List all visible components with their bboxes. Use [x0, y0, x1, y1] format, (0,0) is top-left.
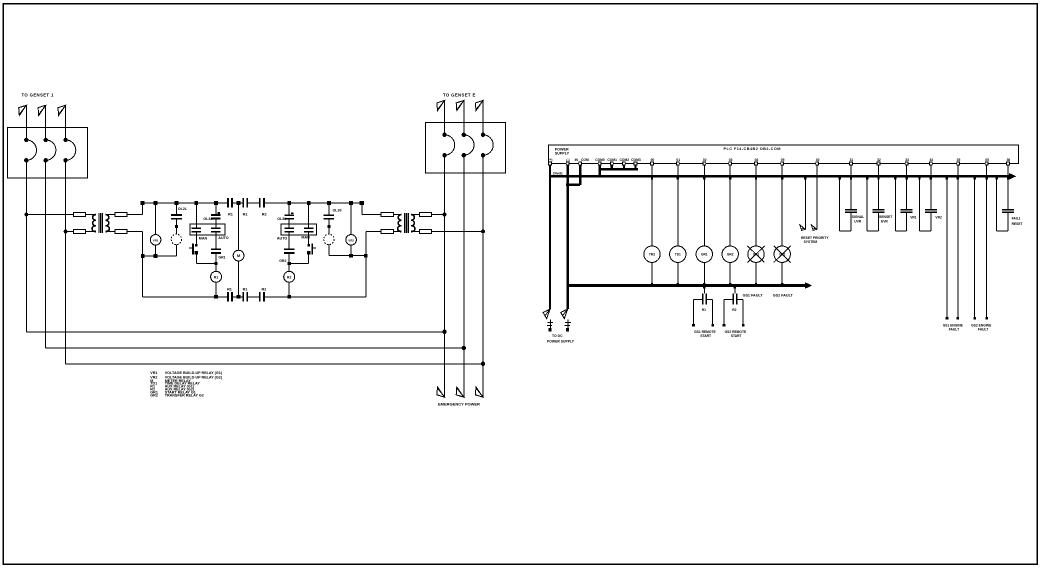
- svg-text:R2: R2: [732, 308, 736, 312]
- svg-text:TRANSFER RELAY G2: TRANSFER RELAY G2: [165, 393, 204, 397]
- terminal pin 00: [651, 162, 654, 165]
- wire: [703, 262, 705, 285]
- junction: [442, 330, 446, 334]
- relay coil R1: [211, 271, 222, 282]
- wire: [729, 262, 731, 285]
- terminal pin COM1: [610, 162, 613, 165]
- contact MAN (in S1): [191, 227, 201, 229]
- wire: [308, 254, 310, 263]
- wire: [106, 214, 115, 216]
- svg-text:R1: R1: [243, 213, 248, 217]
- wire terminal 35 to engine fault contact: [957, 165, 959, 317]
- junction: [237, 201, 241, 205]
- svg-text:R1: R1: [227, 288, 232, 292]
- disconnect switch (to DC power supply): [561, 309, 568, 318]
- wire: [65, 105, 67, 140]
- wire: [175, 203, 177, 214]
- junction (bus nub): [703, 177, 705, 180]
- junction (bus nub): [677, 177, 679, 180]
- fuse F7: [420, 212, 432, 216]
- terminal pin COM0: [598, 162, 601, 165]
- relay VR1 (voltage build-up relay G1): [150, 235, 161, 246]
- wire: [878, 165, 880, 176]
- wire DC- (thick): [566, 165, 568, 309]
- breaker pole 1 (CB2): [442, 133, 446, 137]
- wire: [755, 176, 757, 246]
- capacitor/contact OL32 (right): [284, 214, 294, 216]
- junction (lower bus nub): [677, 283, 679, 286]
- svg-text:PLC F14-CB4B2 OB2-COM: PLC F14-CB4B2 OB2-COM: [724, 147, 781, 151]
- input contact loop VR1: [894, 176, 896, 231]
- svg-text:VR1: VR1: [150, 371, 157, 375]
- pilot light GF2 (crossed): [774, 246, 790, 262]
- junction (bus nub): [838, 177, 840, 180]
- junction (bus nub): [866, 177, 868, 180]
- disconnect switch (to DC power supply): [543, 309, 550, 318]
- flag reset priority 2: [811, 225, 816, 231]
- terminal pin 03: [729, 162, 732, 165]
- wire phase C genset E: [482, 155, 484, 397]
- svg-text:30: 30: [816, 158, 820, 162]
- junction: [175, 201, 179, 205]
- wire: [703, 165, 705, 176]
- junction: [307, 201, 311, 205]
- wire: [195, 254, 197, 263]
- relay VR2 (voltage build-up relay G2): [346, 235, 357, 246]
- svg-text:GR2: GR2: [150, 393, 158, 397]
- terminal pin 31: [850, 162, 853, 165]
- wire: [288, 282, 290, 297]
- input contact loop VR2: [919, 176, 921, 231]
- svg-text:START: START: [700, 334, 711, 338]
- svg-text:GR2: GR2: [279, 259, 286, 263]
- circuit breaker CB1 (genset 1) enclosure: [7, 127, 87, 178]
- svg-text:COM2: COM2: [620, 158, 630, 162]
- flag source connector L1 (to genset 1): [19, 105, 27, 115]
- wire: [215, 219, 217, 227]
- wire: [703, 286, 705, 294]
- terminal pin COM: [579, 162, 582, 165]
- input contact loop FAIL1: [996, 176, 998, 231]
- junction (bus nub): [973, 177, 975, 180]
- junction (bus nub): [946, 177, 948, 180]
- terminal pin 34: [930, 162, 933, 165]
- pilot light GF1 (crossed): [748, 246, 764, 262]
- wire: [946, 176, 948, 317]
- wire phase C genset1: [65, 160, 67, 363]
- svg-text:OL39: OL39: [333, 208, 342, 212]
- svg-text:R1: R1: [228, 213, 233, 217]
- terminal pin COM3: [634, 162, 637, 165]
- svg-text:35: 35: [957, 158, 961, 162]
- wire: [308, 233, 310, 244]
- wire: [175, 220, 177, 235]
- junction: [154, 254, 158, 258]
- input contact loop GENSET: [866, 176, 868, 231]
- junction: [194, 201, 198, 205]
- svg-text:02: 02: [703, 158, 707, 162]
- svg-text:GR1: GR1: [701, 253, 708, 257]
- junction (bus nub): [877, 177, 879, 180]
- wire: [215, 233, 217, 249]
- junction: [288, 262, 291, 265]
- wire: [215, 203, 217, 214]
- breaker pole 2 (CB2): [462, 133, 466, 137]
- wire DC+ (thick): [549, 165, 551, 309]
- wire: [651, 176, 653, 246]
- wire: [196, 262, 216, 264]
- terminal pin 05: [985, 162, 988, 165]
- svg-text:R1: R1: [214, 275, 218, 279]
- contact R1 (remote start contact): [702, 293, 704, 304]
- wire: [482, 101, 484, 135]
- svg-text:OL32: OL32: [277, 217, 286, 221]
- contact VR2 (capacitor bars): [925, 209, 937, 211]
- PLC U1 enclosure: [548, 145, 1018, 164]
- svg-text:COM1: COM1: [607, 158, 617, 162]
- wire: [651, 165, 653, 176]
- svg-text:COM3: COM3: [631, 158, 641, 162]
- wire: [215, 282, 217, 297]
- svg-text:03: 03: [729, 158, 733, 162]
- wire COM2 drop (thick): [623, 165, 625, 170]
- contact R2 (top rail): [259, 198, 261, 207]
- wire phase B genset E: [463, 155, 465, 397]
- svg-text:31: 31: [850, 158, 854, 162]
- wire: [677, 176, 679, 246]
- junction (bus nub): [918, 177, 920, 180]
- junction (bus nub): [703, 286, 705, 289]
- fuse F6: [381, 230, 393, 234]
- junction (lower bus nub): [781, 283, 783, 286]
- wire COM1 drop (thick): [611, 165, 613, 170]
- flag source connector L3 (to genset 1): [58, 105, 66, 115]
- junction (bus nub): [894, 177, 896, 180]
- wire: [155, 203, 157, 235]
- svg-text:COM: COM: [581, 158, 589, 162]
- flag source connector L2 (to genset 1): [38, 105, 46, 115]
- transformer T1 (PT genset 1): [92, 215, 96, 232]
- relay coil TD1: [670, 246, 686, 262]
- wire: [350, 203, 352, 235]
- svg-text:36: 36: [1007, 158, 1011, 162]
- wire: [694, 298, 702, 300]
- contact R1 (bottom rail, second): [242, 292, 244, 301]
- flag source connector E2 (to genset E): [456, 101, 464, 111]
- junction (bus nub): [906, 177, 908, 180]
- relay coil GR2: [722, 246, 738, 262]
- capacitor/contact OL32 (left): [211, 214, 221, 216]
- coil GR2 contact bars: [284, 248, 294, 250]
- svg-text:SUPPLY: SUPPLY: [555, 152, 570, 156]
- wire: [238, 261, 240, 297]
- svg-text:POWER SUPPLY: POWER SUPPLY: [547, 339, 575, 343]
- wire: [361, 203, 363, 215]
- svg-text:33: 33: [905, 158, 909, 162]
- wire: [723, 299, 725, 324]
- wire: [755, 165, 757, 176]
- wire COM jumper to DC- (thick): [579, 165, 581, 185]
- terminal pin 32: [877, 162, 880, 165]
- svg-text:04: 04: [755, 158, 759, 162]
- svg-text:EVR: EVR: [881, 220, 888, 224]
- contact R1 (bottom rail, first): [227, 292, 229, 301]
- wire: [289, 262, 309, 264]
- input contact loop SIGNAL: [839, 176, 841, 231]
- terminal pin 04: [755, 162, 758, 165]
- junction (bus nub): [957, 177, 959, 180]
- wire: [155, 245, 157, 256]
- breaker pole 3 (CB1): [63, 138, 67, 142]
- flag source connector E3 (to genset E): [475, 101, 483, 111]
- wire: [444, 101, 446, 135]
- junction: [462, 346, 466, 350]
- wire: [393, 231, 401, 233]
- contact AUTO (in S1): [211, 227, 221, 229]
- svg-text:FAULT: FAULT: [978, 328, 988, 332]
- terminal: [742, 324, 745, 327]
- junction: [175, 225, 178, 228]
- contact R2 (remote start contact): [732, 293, 734, 304]
- svg-text:00: 00: [651, 158, 655, 162]
- wire: [362, 214, 381, 216]
- wire: [1007, 165, 1009, 176]
- terminal (engine fault): [973, 317, 976, 320]
- junction: [566, 183, 569, 186]
- wire COM3 drop (thick): [634, 165, 636, 170]
- wire terminal 05 to engine fault contact: [986, 165, 988, 317]
- wire: [288, 203, 290, 215]
- wire: [25, 105, 27, 140]
- svg-text:R2: R2: [262, 213, 267, 217]
- capacitor/contact OL2L: [171, 214, 182, 216]
- svg-text:34: 34: [929, 158, 933, 162]
- junction (bus nub): [781, 177, 783, 180]
- wire: [215, 254, 217, 271]
- wire: [26, 214, 73, 216]
- svg-text:SYSTEM: SYSTEM: [804, 240, 818, 244]
- svg-text:START: START: [731, 334, 742, 338]
- junction (bus nub): [755, 177, 757, 180]
- junction: [214, 295, 218, 299]
- svg-text:01: 01: [676, 158, 680, 162]
- svg-text:OL2L: OL2L: [178, 207, 188, 211]
- wire phase A genset E (down to emergency power flag): [444, 155, 446, 397]
- wire: [850, 165, 852, 176]
- svg-text:AUTO: AUTO: [218, 236, 229, 240]
- junction: [154, 201, 158, 205]
- wire: [742, 299, 744, 324]
- contact GENSET (capacitor bars): [873, 209, 885, 211]
- svg-text:05: 05: [781, 158, 785, 162]
- svg-text:UVR: UVR: [854, 220, 862, 224]
- wire: [328, 203, 330, 215]
- terminal: [692, 324, 695, 327]
- junction: [349, 254, 353, 258]
- junction (lower bus nub): [755, 283, 757, 286]
- junction (bus nub): [986, 177, 988, 180]
- wire: [712, 299, 714, 324]
- wire terminal 30 to reset flag: [816, 165, 818, 229]
- svg-text:TO DC: TO DC: [552, 334, 563, 338]
- junction (PT tap phase C): [64, 230, 68, 234]
- fuse F4: [115, 230, 127, 234]
- svg-text:FAULT: FAULT: [949, 328, 959, 332]
- wire lower common bus (thick, arrow right): [567, 284, 806, 287]
- wire: [804, 176, 806, 229]
- terminal (engine fault): [985, 317, 988, 320]
- junction: [349, 201, 353, 205]
- wire: [366, 231, 381, 233]
- wire: [175, 245, 177, 256]
- flag reset priority 1: [800, 225, 805, 231]
- svg-text:OL32: OL32: [203, 217, 212, 221]
- wire: [677, 165, 679, 176]
- junction (bus nub): [734, 286, 736, 289]
- fuse F2: [73, 230, 85, 234]
- contact MAN (in S2): [304, 227, 314, 229]
- breaker pole 2 (CB1): [44, 138, 48, 142]
- wire tie phase C: [66, 363, 483, 365]
- wire: [432, 230, 483, 232]
- wire tie phase B: [46, 347, 464, 349]
- wire: [308, 203, 310, 228]
- junction (bus nub): [804, 177, 806, 180]
- transformer T2 (PT genset E): [398, 215, 402, 232]
- wire right control rail: [365, 232, 367, 297]
- terminal pin 35: [957, 162, 960, 165]
- wire: [411, 231, 419, 233]
- junction: [215, 262, 218, 265]
- terminal pin 33: [905, 162, 908, 165]
- junction: [481, 230, 485, 234]
- wire: [86, 231, 96, 233]
- terminal (engine fault): [956, 317, 959, 320]
- wire COM0 drop (thick): [598, 165, 600, 178]
- circuit breaker CB2 (genset E) enclosure: [425, 122, 505, 172]
- contact VR1 (capacitor bars): [901, 209, 913, 211]
- wire: [729, 165, 731, 176]
- svg-text:VOLTAGE BUILD-UP RELAY (G1): VOLTAGE BUILD-UP RELAY (G1): [165, 371, 223, 375]
- wire: [781, 165, 783, 176]
- transfer switch S2 (AUTO/MAN) enclosure right: [281, 224, 316, 235]
- wire: [463, 101, 465, 135]
- junction (PT tap phase A): [24, 213, 28, 217]
- wire phase B genset1: [45, 160, 47, 348]
- junction: [237, 295, 241, 299]
- wire: [411, 214, 419, 216]
- wire left control rail: [142, 232, 144, 297]
- wire: [288, 233, 290, 249]
- junction: [214, 201, 218, 205]
- wire: [195, 233, 197, 244]
- wire: [288, 219, 290, 227]
- wire: [142, 203, 144, 215]
- lamp (dashed circle) G1: [171, 234, 181, 244]
- wire: [328, 245, 330, 256]
- wire: [930, 165, 932, 176]
- terminal pin (+): [549, 162, 552, 165]
- svg-text:GR1: GR1: [218, 256, 225, 260]
- svg-text:(-): (-): [566, 158, 569, 162]
- svg-text:R2: R2: [287, 275, 291, 279]
- svg-text:(+): (+): [548, 158, 552, 162]
- svg-text:VR2: VR2: [348, 238, 354, 242]
- svg-text:RESET: RESET: [1012, 222, 1023, 226]
- terminal: [566, 328, 569, 331]
- terminal pin 01: [676, 162, 679, 165]
- wire: [127, 214, 143, 216]
- junction: [328, 225, 331, 228]
- contact R1 (top rail, first): [227, 198, 229, 207]
- svg-text:24vdc: 24vdc: [553, 171, 563, 175]
- junction (bus nub): [729, 177, 731, 180]
- junction: [287, 201, 291, 205]
- junction: [364, 254, 368, 258]
- junction: [141, 254, 145, 258]
- svg-text:AUTO: AUTO: [277, 236, 288, 240]
- wire: [45, 105, 47, 140]
- svg-text:R1: R1: [702, 308, 706, 312]
- junction (bus nub): [995, 177, 997, 180]
- wire: [350, 245, 352, 256]
- wire: [432, 214, 445, 216]
- wire: [707, 298, 713, 300]
- wire: [328, 219, 330, 234]
- junction (lower bus nub): [651, 283, 653, 286]
- contact GR2 aux (NO contact): [307, 244, 310, 247]
- wire control bottom rail: [143, 296, 228, 298]
- junction: [287, 295, 291, 299]
- terminal: [711, 324, 714, 327]
- meter relay M: [233, 250, 244, 261]
- svg-text:32: 32: [877, 158, 881, 162]
- contact R1 (top rail, second): [242, 198, 244, 207]
- wire tie phase A: [26, 331, 444, 333]
- wire: [677, 262, 679, 285]
- contact SIGNAL (capacitor bars): [845, 209, 857, 211]
- fuse F8: [420, 230, 432, 234]
- flag load connector (emergency power 2): [456, 387, 464, 397]
- fuse F3: [115, 212, 127, 216]
- relay coil GR1: [696, 246, 712, 262]
- breaker pole 3 (CB2): [481, 133, 485, 137]
- contact FAIL1 (capacitor bars): [1002, 209, 1014, 211]
- wire: [127, 231, 143, 233]
- wire control top rail: [143, 202, 228, 204]
- svg-text:GS2 FAULT: GS2 FAULT: [773, 293, 794, 297]
- wire phase A genset1: [25, 160, 27, 331]
- svg-text:GS1 FAULT: GS1 FAULT: [743, 293, 764, 297]
- wire: [781, 176, 783, 246]
- junction: [443, 213, 447, 217]
- terminal pin 36: [1007, 162, 1010, 165]
- wire: [737, 298, 743, 300]
- capacitor/contact OL39: [324, 214, 334, 216]
- terminal pin COM2: [623, 162, 626, 165]
- wire: [906, 165, 908, 176]
- wire lower rail left: [143, 255, 177, 257]
- wire main output bus (thick, arrow right): [549, 175, 1010, 178]
- terminal: [723, 324, 726, 327]
- svg-text:FAIL1: FAIL1: [1012, 216, 1021, 220]
- svg-text:TD1: TD1: [675, 253, 681, 257]
- fuse F5: [381, 212, 393, 216]
- junction (bus nub): [930, 177, 932, 180]
- breaker pole 1 (CB1): [24, 138, 28, 142]
- wire lower rail right: [329, 255, 366, 257]
- terminal pin 02: [703, 162, 706, 165]
